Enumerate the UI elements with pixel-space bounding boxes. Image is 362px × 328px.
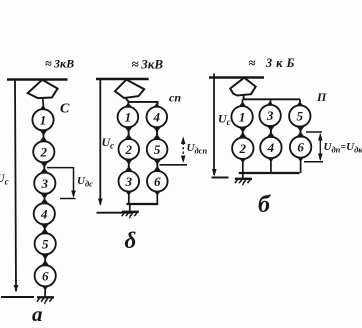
- svg-text:≈ 3кВ: ≈ 3кВ: [132, 57, 164, 72]
- svg-text:Uдп=Uдк: Uдп=Uдк: [324, 141, 362, 155]
- junction 5-6 (fig b): [154, 159, 161, 171]
- speaker 4: [34, 203, 55, 224]
- terminal speaker 3 top (fig c): [267, 101, 274, 106]
- wire horn to branches: [126, 98, 158, 105]
- junction speakers 2-3: [41, 162, 48, 173]
- svg-text:П: П: [316, 90, 327, 104]
- svg-text:5: 5: [154, 142, 161, 157]
- wire speaker 6 to bottom rail: [154, 191, 161, 196]
- wire speaker 6 to ground: [42, 286, 49, 291]
- svg-text:3: 3: [125, 174, 133, 189]
- svg-text:4: 4: [267, 140, 275, 155]
- svg-text:Uдс: Uдс: [77, 175, 93, 189]
- speaker 6: [35, 265, 56, 286]
- wire speaker 6 to bottom rail: [297, 157, 304, 162]
- wire speaker 2 to bottom rail: [240, 159, 247, 164]
- svg-text:3: 3: [266, 108, 274, 123]
- speaker 3: [34, 173, 55, 194]
- svg-text:3: 3: [41, 176, 49, 191]
- wire rail to ground (fig c): [242, 173, 244, 178]
- speaker 5 (fig c): [289, 105, 310, 126]
- svg-text:5: 5: [42, 236, 49, 251]
- speaker 5: [35, 233, 56, 254]
- speaker 3 (fig b): [119, 171, 140, 192]
- speaker 3 (fig c): [259, 105, 280, 126]
- speaker 1 (fig c): [231, 106, 252, 127]
- speaker 6 (fig b): [147, 171, 168, 192]
- speaker 2 (fig b): [119, 139, 140, 160]
- junction speakers 5-6: [42, 254, 49, 266]
- junction speakers 4-5: [41, 224, 48, 234]
- wire top rail (fig c): [209, 76, 264, 78]
- junction 1-2 (fig b): [125, 127, 132, 140]
- svg-text:Uс: Uс: [102, 135, 115, 151]
- ground (fig a): [37, 297, 54, 304]
- junction speakers 3-4: [41, 193, 48, 203]
- svg-text:4: 4: [153, 110, 161, 125]
- speaker 2 (fig c): [232, 138, 253, 159]
- ground (fig b): [122, 212, 139, 219]
- svg-text:6: 6: [42, 268, 49, 283]
- svg-text:а: а: [32, 302, 43, 326]
- junction 1-2 (fig c): [239, 127, 246, 138]
- wire speaker 3 to bottom rail: [126, 191, 133, 196]
- wire speaker 4 to bottom rail: [268, 158, 275, 163]
- wire bottom rail (fig c): [239, 172, 300, 174]
- dimension Udp (fig c): [306, 131, 322, 133]
- junction 3-4 (fig c): [268, 126, 275, 138]
- wire top rail (fig b): [96, 78, 149, 80]
- dimension line Uc (fig b): [99, 79, 101, 205]
- loudspeaker horn SP (fig b): [115, 80, 144, 98]
- wire top rail (fig a): [7, 78, 68, 80]
- svg-text:б: б: [258, 192, 271, 218]
- terminal speaker 1 top: [125, 102, 132, 107]
- speaker 5 (fig b): [147, 139, 168, 160]
- junction 4-5 (fig b): [154, 127, 161, 140]
- junction 5-6 (fig c): [297, 126, 304, 137]
- svg-text:1: 1: [239, 109, 246, 124]
- terminal speaker 1 top (fig c): [239, 102, 246, 107]
- speaker 2: [33, 141, 54, 162]
- svg-text:6: 6: [154, 174, 161, 189]
- svg-text:≈ 3кВ: ≈ 3кВ: [45, 57, 74, 71]
- bracket Udc (fig a): [47, 168, 74, 196]
- svg-text:Uс: Uс: [0, 171, 9, 187]
- svg-text:сп: сп: [169, 91, 181, 105]
- dimension Udsp (fig b): [160, 164, 188, 166]
- svg-text:2: 2: [239, 141, 247, 156]
- speaker 4 (fig c): [260, 137, 281, 158]
- svg-text:≈ 3кБ: ≈ 3кБ: [249, 56, 299, 70]
- junction speakers 1-2: [40, 130, 47, 142]
- svg-text:5: 5: [297, 109, 304, 124]
- svg-text:1: 1: [40, 112, 47, 127]
- ground (fig c): [235, 179, 252, 186]
- wire bottom rail (fig b): [127, 203, 159, 205]
- speaker 1 (fig b): [118, 107, 139, 128]
- terminal speaker 5 top (fig c): [297, 101, 304, 106]
- dimension line Uc (fig a): [15, 80, 16, 291]
- dimension line Uc (fig c): [213, 74, 215, 176]
- speaker 1: [32, 109, 53, 130]
- wire horn to speaker 1: [42, 98, 45, 107]
- svg-text:1: 1: [125, 110, 132, 125]
- svg-text:Uдсп: Uдсп: [187, 142, 208, 156]
- junction 2-3 (fig b): [125, 159, 132, 171]
- loudspeaker horn P (fig c): [230, 78, 256, 96]
- svg-text:2: 2: [125, 142, 133, 157]
- speaker 6 (fig c): [290, 136, 311, 157]
- svg-text:Uс: Uс: [218, 112, 231, 128]
- svg-text:δ: δ: [125, 228, 137, 253]
- svg-text:4: 4: [40, 206, 48, 221]
- svg-text:2: 2: [40, 144, 48, 159]
- wire horn to branches: [244, 96, 300, 100]
- speaker 4 (fig b): [147, 107, 168, 128]
- terminal speaker 4 top: [154, 103, 161, 108]
- wire rail to ground (fig b): [129, 204, 131, 211]
- loudspeaker horn C (fig a): [28, 80, 58, 98]
- svg-text:6: 6: [297, 140, 304, 155]
- svg-text:С: С: [60, 102, 70, 117]
